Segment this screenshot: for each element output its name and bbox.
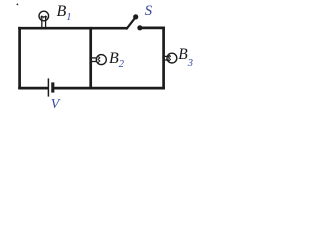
stray dot top-left bbox=[17, 4, 19, 6]
bulb B2 legs bbox=[92, 57, 97, 59]
wire right vertical bbox=[162, 27, 165, 90]
wire top left segment bbox=[18, 27, 126, 30]
battery V long plate bbox=[47, 78, 49, 96]
bulb B1 legs bbox=[41, 16, 43, 28]
battery V short plate bbox=[51, 82, 54, 92]
bulb B1 filament bbox=[41, 17, 47, 18]
bulb B3 circle bbox=[167, 53, 177, 63]
wire bottom right segment bbox=[53, 87, 165, 90]
bulb B2 filament bbox=[98, 55, 100, 63]
switch S lever bbox=[126, 18, 135, 29]
switch S moving contact dot bbox=[133, 14, 138, 19]
label B3 bbox=[178, 47, 193, 63]
wire middle vertical (B2 branch) bbox=[89, 27, 92, 90]
wire switch output segment bbox=[140, 27, 165, 30]
wire bottom left segment bbox=[18, 87, 48, 90]
label B1 bbox=[57, 4, 72, 20]
label S bbox=[145, 4, 153, 19]
wire left vertical bbox=[18, 27, 21, 90]
bulb B3 legs bbox=[164, 55, 169, 57]
bulb B2 circle bbox=[96, 55, 106, 65]
bulb B1 circle bbox=[39, 11, 49, 21]
label V bbox=[51, 98, 60, 112]
label B2 bbox=[109, 51, 124, 67]
switch S fixed contact dot bbox=[137, 25, 142, 30]
bulb B3 filament bbox=[169, 54, 171, 62]
